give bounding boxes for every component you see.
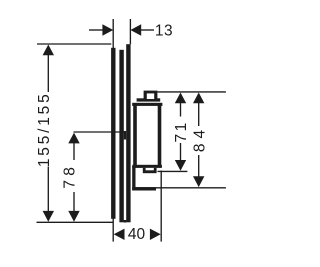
collar outer <box>143 168 157 173</box>
dim40 arrow right <box>150 229 161 240</box>
dim155 dimension line lower segment <box>47 167 49 214</box>
dim78 arrow up <box>68 133 79 144</box>
dim84 arrow down <box>193 176 204 187</box>
dim84 dimension line upper segment <box>198 101 200 126</box>
dim71 arrow up <box>175 93 186 104</box>
collar inner white <box>146 168 154 170</box>
dim78 dimension line upper segment <box>73 141 75 160</box>
stem connector between bars <box>124 131 126 140</box>
valve left wall <box>133 106 137 166</box>
dim78 dimension line lower segment <box>73 192 75 213</box>
valve top flange <box>132 103 162 106</box>
dim13 right leader line <box>141 29 155 31</box>
dim71 bottom extension line <box>158 170 188 172</box>
dim84 dimension line lower segment <box>198 155 200 178</box>
dim84 bottom extension line <box>134 187 226 189</box>
dim13 left leader line <box>89 29 104 31</box>
dim71 dimension line upper segment <box>180 101 182 117</box>
wall plate bar 2 <box>119 50 123 223</box>
wall plate bar 1 <box>111 48 115 219</box>
svg-text:78: 78 <box>62 163 79 189</box>
dim84 arrow up <box>193 93 204 104</box>
dim71 dimension line lower segment <box>180 143 182 162</box>
dim13 left extension line <box>112 19 114 48</box>
dim13 right extension line <box>129 19 131 44</box>
valve body top edge <box>137 98 161 101</box>
dim155 bottom extension line <box>37 221 114 223</box>
dim71 arrow down <box>175 160 186 171</box>
dim78 arrow down <box>68 211 79 222</box>
svg-text:155/155: 155/155 <box>36 91 53 167</box>
dim155 arrow up <box>43 45 54 56</box>
dim13 arrow pointing right <box>102 24 113 35</box>
dim155 arrow down <box>43 211 54 222</box>
dim40 arrow left <box>114 229 125 240</box>
plate bottom bridge between bar2 and bar3 <box>124 220 127 223</box>
dim40 right extension line <box>160 171 162 242</box>
svg-text:40: 40 <box>128 226 146 243</box>
dim40 left extension line <box>112 219 114 242</box>
dim155 top extension line <box>37 43 111 45</box>
valve bottom wall <box>132 165 162 168</box>
wall plate bar 3 <box>126 44 130 222</box>
svg-text:84: 84 <box>191 125 208 152</box>
svg-text:13: 13 <box>155 22 173 39</box>
cap top extension line <box>157 91 226 93</box>
valve cap inner white <box>147 93 154 99</box>
svg-text:71: 71 <box>173 120 190 142</box>
box bracket foot <box>132 187 156 190</box>
valve cap outer <box>144 91 158 99</box>
box bracket vertical <box>132 166 135 190</box>
valve right wall <box>158 106 162 166</box>
dim78 center extension line <box>74 131 126 133</box>
dim13 arrow pointing left <box>130 24 141 35</box>
dim155 dimension line upper segment <box>47 53 49 92</box>
